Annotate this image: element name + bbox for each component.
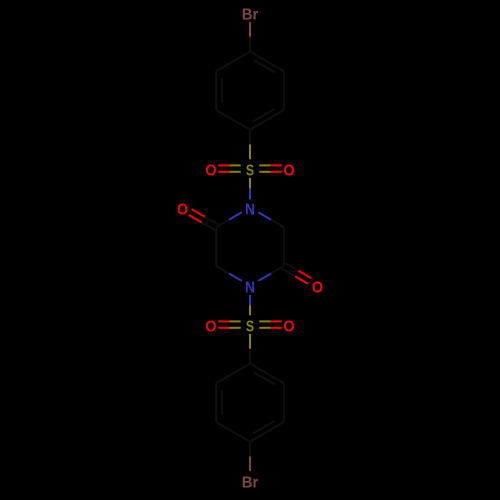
bond N2-S2 — [249, 295, 251, 305]
ring1 edge 0 — [250, 52, 284, 72]
ring1 edge 2 — [250, 110, 284, 130]
svg-text:O: O — [283, 163, 294, 180]
svg-text:N: N — [245, 280, 255, 297]
ring2 edge 0 — [250, 364, 284, 384]
svg-text:O: O — [312, 280, 323, 297]
C3=O3 — [282, 269, 295, 277]
ring2 edge 1 — [283, 383, 285, 422]
bond N1-C6 — [229, 212, 242, 219]
ring2 inner 0 — [253, 372, 275, 385]
svg-text:O: O — [205, 163, 216, 180]
S1=O left — [229, 164, 240, 166]
C6=O2 — [205, 217, 218, 225]
ring1 edge 3 — [216, 110, 250, 130]
ring2 edge 5 — [216, 364, 250, 384]
ring2 edge 2 — [250, 422, 284, 442]
bond C5-C6 — [215, 227, 217, 266]
S1=O right — [259, 171, 270, 173]
svg-text:S: S — [246, 319, 254, 336]
ring2 edge 4 — [215, 383, 217, 422]
svg-text:S: S — [246, 163, 254, 180]
svg-text:O: O — [283, 319, 294, 336]
bond N2-C3 — [258, 274, 271, 281]
S2=O left — [229, 320, 240, 322]
bond C2-C3 — [283, 227, 285, 266]
svg-text:Br: Br — [242, 7, 259, 24]
ring1 edge 5 — [216, 52, 250, 72]
svg-text:O: O — [177, 202, 188, 219]
ring1 inner 2 — [253, 109, 275, 122]
bond C4-S1 — [249, 130, 251, 145]
bond S2-C1b — [249, 334, 251, 349]
bond S1-N1 — [249, 178, 251, 189]
ring2 inner 4 — [221, 390, 223, 415]
svg-text:Br: Br — [242, 475, 259, 492]
ring1 inner 0 — [253, 60, 275, 73]
ring2 edge 3 — [216, 422, 250, 442]
ring2 inner 2 — [253, 421, 275, 434]
bond Br1-C1 — [249, 22, 251, 37]
S2=O right — [259, 327, 270, 329]
bond N1-C2 — [258, 212, 271, 219]
ring1 edge 4 — [215, 71, 217, 110]
bond N2-C5 — [229, 274, 242, 281]
ring1 inner 4 — [221, 78, 223, 103]
svg-text:O: O — [205, 319, 216, 336]
ring1 edge 1 — [283, 71, 285, 110]
svg-text:N: N — [245, 202, 255, 219]
bond C4b-Br2 — [249, 442, 251, 457]
